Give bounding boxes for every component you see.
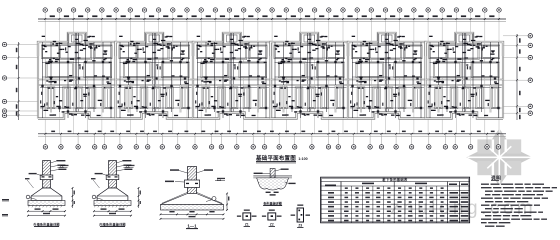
svg-text:外墙条形基础详图: 外墙条形基础详图 <box>33 221 59 226</box>
svg-text:Z3: Z3 <box>298 224 302 228</box>
svg-text:基础平面布置图: 基础平面布置图 <box>255 154 296 162</box>
svg-text:条形基础详图: 条形基础详图 <box>262 200 282 205</box>
svg-text:Z1: Z1 <box>245 222 249 226</box>
svg-text:桩下条形基础表: 桩下条形基础表 <box>381 177 408 182</box>
svg-text:Z2: Z2 <box>270 222 274 226</box>
svg-text:1—1: 1—1 <box>187 223 197 228</box>
svg-text:1:100: 1:100 <box>298 157 307 161</box>
svg-text:内墙条形基础详图: 内墙条形基础详图 <box>99 221 125 226</box>
